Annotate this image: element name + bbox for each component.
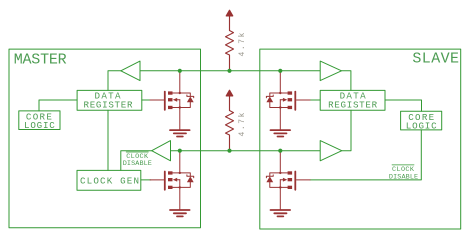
- buffer U4 slave clock input buffer (bottom): [320, 141, 342, 161]
- ground (slave bottom): [271, 187, 291, 216]
- ground (master top): [170, 108, 190, 137]
- svg-text:REGISTER: REGISTER: [328, 100, 377, 111]
- box DATA REGISTER (master): [77, 90, 142, 110]
- box CLOCK GEN (master): [77, 170, 141, 190]
- transistor Q3 (slave data, NMOS open-drain, mirrored): [266, 72, 310, 110]
- transistor Q1 (master data, NMOS open-drain): [150, 72, 194, 110]
- ground (slave top): [271, 108, 291, 137]
- buffer U1 master input buffer (top): [121, 61, 140, 81]
- junction node bus2/Q2 drain: [178, 149, 182, 153]
- wire data register to core logic (slave): [385, 100, 422, 111]
- wire core logic to Q4 gate (slave clock disable): [310, 130, 421, 180]
- junction node bus2/R2: [227, 149, 231, 153]
- power VCC arrow 1: [226, 10, 233, 30]
- wire data register to Q1 gate (master): [142, 99, 151, 101]
- svg-text:DISABLE: DISABLE: [123, 160, 152, 168]
- wire clock gen to Q2 gate: [141, 179, 151, 181]
- wire clock disable (buffer to clock gen): [121, 151, 152, 171]
- net label CLOCK DISABLE (slave): [389, 165, 418, 182]
- junction node bus1/R1: [227, 69, 231, 73]
- buffer U2 master clock input buffer (bottom): [152, 141, 171, 161]
- svg-text:LOGIC: LOGIC: [24, 120, 55, 131]
- wire core logic to data register (master): [39, 100, 77, 111]
- svg-text:CLOCK: CLOCK: [392, 166, 415, 174]
- svg-text:REGISTER: REGISTER: [84, 100, 133, 111]
- transistor Q2 (master clock, NMOS open-drain): [150, 151, 194, 189]
- svg-text:SLAVE: SLAVE: [412, 50, 459, 67]
- svg-text:MASTER: MASTER: [14, 51, 67, 68]
- wire buffer U3 output to data register (slave): [342, 71, 351, 91]
- box CORE LOGIC (slave): [401, 111, 442, 130]
- junction node bus1/Q3 drain: [278, 69, 282, 73]
- wire buffer U4 output to data register bottom (slave): [342, 110, 351, 151]
- junction node bus2/Q4 drain: [278, 149, 282, 153]
- buffer U3 slave input buffer (top): [320, 61, 341, 81]
- box DATA REGISTER (slave): [320, 90, 385, 110]
- svg-text:CLOCK GEN: CLOCK GEN: [80, 175, 139, 186]
- wire buffer U1 output to data register: [108, 71, 121, 91]
- svg-text:4.7k: 4.7k: [238, 32, 247, 56]
- wire bus line 1 (SDA): [140, 70, 320, 72]
- junction node bus1/Q1 drain: [178, 69, 182, 73]
- transistor Q4 (slave clock, NMOS open-drain, mirrored): [266, 151, 310, 189]
- MASTER box: [9, 49, 201, 228]
- net label CLOCK DISABLE (master): [123, 152, 152, 168]
- svg-text:DISABLE: DISABLE: [389, 174, 418, 182]
- SLAVE box: [260, 49, 461, 229]
- resistor R1: [226, 31, 234, 71]
- ground (master bottom): [170, 187, 190, 216]
- svg-text:4.7k: 4.7k: [238, 112, 247, 136]
- resistor R2: [226, 111, 234, 151]
- box CORE LOGIC (master): [19, 111, 60, 130]
- wire data register gate (slave top): [310, 99, 320, 101]
- power VCC arrow 2: [226, 90, 233, 110]
- wire bus line 2 (SCL): [171, 150, 321, 152]
- wire data register bottom to clock gen (master): [107, 110, 109, 170]
